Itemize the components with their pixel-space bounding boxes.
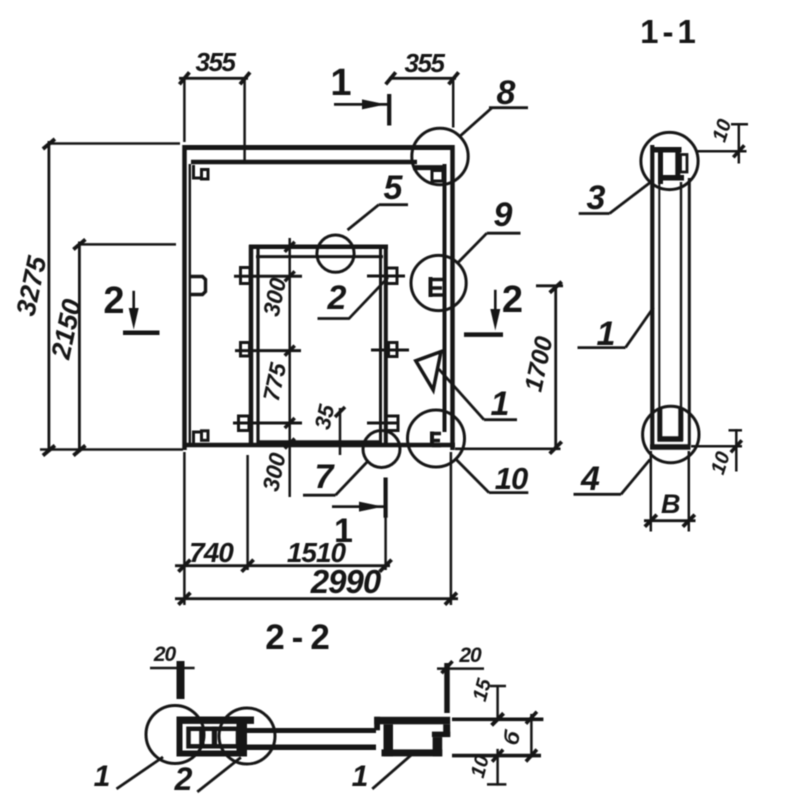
hinge mark middle-left of opening	[235, 343, 301, 357]
opening: left outer edge	[249, 245, 254, 444]
svg-text:7: 7	[315, 458, 336, 496]
panel plate: top line	[247, 728, 376, 733]
corbel bottom-left	[192, 431, 208, 446]
dim 355 right: line	[389, 77, 456, 80]
bottom extension line far left	[183, 452, 186, 605]
hook middle-right	[431, 277, 445, 297]
corbel top-left	[192, 165, 208, 180]
tick for dim 35	[335, 407, 345, 417]
panel outline: right leg inner edge	[443, 164, 447, 432]
section 1-1 top cap: inner-left vertical	[658, 152, 663, 184]
dim line 740/1510	[175, 564, 390, 567]
svg-text:1: 1	[94, 760, 111, 793]
hinge mark upper-left of opening	[234, 268, 302, 284]
section 1-1 top cap: notch	[681, 155, 688, 173]
svg-text:В: В	[661, 489, 681, 519]
section 1-1 panel: left inner line	[658, 180, 660, 410]
tick at upper hinge on dim chain	[285, 271, 295, 281]
tick at lower hinge on dim chain	[285, 418, 295, 428]
svg-text:20: 20	[153, 643, 177, 666]
tick at middle hinge on dim chain	[285, 346, 295, 356]
dim 10 (top right of section 1-1)	[697, 150, 747, 153]
dim 2150: top extension	[79, 243, 176, 246]
section mark 1 bottom: arrow line	[332, 505, 384, 508]
section 1-1 top cap: right vertical	[675, 148, 680, 180]
dim line 2990	[175, 597, 458, 600]
section 1-1 bottom cap: U bottom bar	[658, 436, 684, 442]
opening: bottom inner line	[258, 440, 379, 443]
channel profile 2: inner border rect	[189, 729, 239, 747]
section 1-1 bottom outer bar	[650, 444, 691, 450]
vertical dimension chain line inside opening (300/775/300)	[288, 238, 291, 497]
corbel top-right	[432, 171, 443, 182]
section 1-1 top cap: top bar	[651, 147, 682, 153]
svg-text:10: 10	[495, 461, 528, 496]
opening: left inner edge	[256, 248, 259, 444]
bottom extension line far right	[450, 452, 453, 605]
detail circle (section 2-2 second)	[219, 708, 275, 764]
channel profile 2: second divider bar	[212, 727, 217, 749]
channel profile 2: right wall	[237, 717, 248, 757]
dim 1700: bottom slash	[550, 442, 562, 454]
tick at bottom edge on dim chain	[285, 439, 295, 449]
section 1-1 panel: right outer line	[688, 178, 691, 445]
dim B (section 2-2)	[530, 714, 533, 758]
opening: right outer edge	[384, 245, 388, 445]
dim 1700: line	[554, 285, 557, 449]
channel profile 2: left wall	[177, 717, 183, 757]
svg-text:740: 740	[189, 537, 234, 568]
panel plate: bottom line	[247, 745, 376, 751]
panel outline: top outer edge	[183, 145, 454, 150]
channel profile 1: right step vertical	[443, 724, 450, 737]
section 1-1 top cap: bottom bar	[661, 175, 684, 181]
section 1-1 bottom cap: U right vertical	[678, 408, 683, 441]
section 1-1 panel: left outer line	[650, 145, 654, 447]
panel outline: left leg inner edge	[189, 164, 192, 444]
channel profile 1: bottom bar	[382, 749, 443, 756]
opening: top inner edge	[256, 255, 383, 258]
svg-text:2990: 2990	[310, 563, 382, 600]
tick on opening top at dim chain	[285, 242, 295, 252]
channel profile 2: inner divider bar	[199, 727, 204, 749]
svg-text:2: 2	[174, 761, 193, 797]
channel profile 1: step horizontal	[432, 732, 450, 738]
channel profile 2 (left): top bar	[177, 717, 255, 724]
dim 10 (bottom right of section 1-1)	[691, 445, 742, 448]
dim 35 line	[339, 408, 342, 455]
section mark 2 left: arrow	[132, 291, 135, 318]
hinge mark upper-right of opening	[367, 268, 405, 284]
dim 355 right: end ticks	[386, 72, 396, 84]
section mark 2 left: cut tick	[123, 330, 160, 335]
dim 2150: end ticks	[73, 239, 85, 249]
dim 3275: top extension	[49, 142, 180, 145]
bottom extension line at x=247	[246, 455, 249, 570]
svg-text:355: 355	[405, 48, 446, 78]
panel outline: left leg outer edge	[182, 145, 187, 450]
dim 355 right: extension line	[452, 78, 455, 128]
section mark 1 top: arrowhead	[362, 99, 386, 109]
detail circle (section 2-2 left)	[146, 706, 204, 764]
svg-text:4: 4	[580, 460, 600, 498]
svg-text:2-2: 2-2	[265, 618, 337, 657]
svg-text:20: 20	[458, 644, 482, 667]
dim 3275: end ticks	[43, 139, 55, 149]
channel profile 1: left lip	[374, 717, 380, 731]
opening: top outer edge	[249, 245, 388, 250]
level line bottom of profile	[452, 754, 541, 758]
detail circle 7 (opening bottom-right)	[363, 431, 400, 468]
svg-text:1-1: 1-1	[640, 13, 700, 50]
dim 2150: line	[78, 242, 81, 453]
corbel bottom-right	[432, 432, 441, 448]
svg-text:1: 1	[352, 760, 369, 793]
svg-text:355: 355	[196, 47, 237, 77]
channel profile 1: right leg	[433, 737, 443, 756]
svg-text:5: 5	[384, 169, 404, 207]
dim 355 left: extension lines	[183, 78, 186, 142]
panel outline: top inner edge	[191, 160, 417, 165]
section mark 1 top: cut tick	[387, 94, 391, 126]
hinge mark lower-left of opening	[233, 416, 302, 431]
hook middle-left	[190, 277, 206, 295]
bottom extension line at x=385	[384, 517, 387, 570]
dim 3275: bottom extension	[40, 448, 183, 451]
detail circle 10 (right leg bottom corner)	[408, 410, 465, 467]
svg-text:2: 2	[327, 279, 347, 317]
dim 10 (bottom right of section 2-2)	[496, 749, 499, 786]
svg-text:1: 1	[491, 385, 510, 423]
section mark 1 bottom: cut tick	[384, 478, 388, 518]
dim 3275: line	[48, 141, 51, 452]
detail circle 5 (opening top edge)	[317, 235, 354, 272]
section mark 2 right: cut tick	[464, 332, 503, 337]
svg-text:3: 3	[587, 179, 606, 217]
dim B (width of section 1-1)	[650, 451, 653, 532]
opening: right inner edge	[379, 248, 382, 444]
level line top of profile	[452, 717, 543, 721]
section 1-1 bottom cap: U left vertical	[657, 408, 662, 441]
detail circle 3 (top of section)	[641, 132, 698, 189]
section mark 1 top: arrow line	[334, 103, 388, 106]
channel profile 1: left leg	[384, 724, 394, 756]
dim 1700: bottom extension	[455, 447, 561, 450]
panel outline: right leg outer edge	[450, 145, 455, 450]
section 1-1 panel: right inner line	[680, 182, 682, 410]
channel profile 1 (right): top bar	[374, 717, 450, 725]
svg-text:2: 2	[502, 279, 523, 321]
detail circle 8 (top-right corner)	[412, 128, 468, 184]
weld triangle on right leg	[416, 352, 441, 390]
section mark 2 right: arrow	[494, 290, 497, 319]
hinge mark middle-right of opening	[371, 343, 409, 357]
svg-text:1: 1	[330, 62, 351, 104]
channel profile 2: bottom bar	[177, 751, 248, 757]
detail circle 9 (right leg middle)	[411, 255, 466, 310]
dim 1700: top tick bar	[536, 284, 563, 287]
panel outline: bottom edge	[183, 443, 455, 448]
svg-text:2: 2	[103, 280, 124, 322]
dim 355 left: end ticks	[179, 72, 189, 84]
hinge mark lower-right of opening	[367, 416, 400, 431]
detail circle 4 (bottom of section)	[643, 406, 699, 462]
svg-text:9: 9	[494, 196, 513, 234]
dim 355 left: line	[179, 77, 248, 80]
